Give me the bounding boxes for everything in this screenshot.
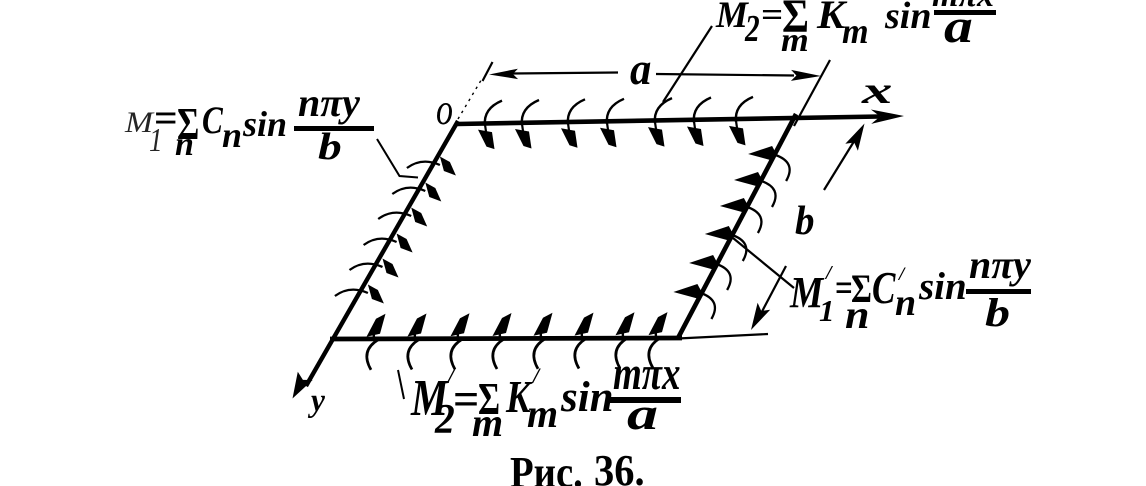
bottom edge thin extension <box>678 334 768 339</box>
dimension b line lower segment <box>757 266 786 321</box>
formula M2p: numerator m pi x <box>613 350 680 398</box>
moment hook right 6 <box>673 284 715 319</box>
formula M2p: K subscript m <box>527 394 558 434</box>
label b (dimension) <box>795 200 814 241</box>
formula M2: subscript 2 <box>745 10 760 48</box>
formula M2p: subscript 2 <box>435 399 455 441</box>
plate right edge <box>678 114 796 338</box>
moment hook top 6 <box>687 98 711 147</box>
formula M2p: sum <box>478 377 500 422</box>
plate bottom edge <box>330 338 682 339</box>
formula M2p: sum index m <box>472 403 503 443</box>
moment hook top 4 <box>600 99 624 148</box>
moment hook left 6 <box>335 285 384 304</box>
formula M1: C <box>202 101 223 140</box>
formula M2p: M <box>411 373 448 425</box>
moment hook right 4 <box>705 226 747 261</box>
formula M1: M (faint) <box>125 108 153 138</box>
caption 36. <box>594 449 645 486</box>
moment hook left 3 <box>378 208 427 227</box>
x axis arrowhead <box>871 110 904 124</box>
moment hook right 2 <box>734 172 776 207</box>
dimension b line upper segment <box>824 130 861 190</box>
moment hook top 7 <box>729 97 753 145</box>
moment hook top 2 <box>515 100 539 149</box>
formula M1p: numerator n pi y <box>969 245 1031 285</box>
formula M1p: C <box>872 266 895 311</box>
formula M2: K <box>817 0 845 35</box>
formula M1: sin <box>243 106 287 142</box>
formula M1: fraction bar <box>294 126 374 131</box>
formula M2: equals <box>761 0 783 32</box>
formula M1p: denominator b <box>985 293 1010 333</box>
y axis arrowhead <box>293 372 313 399</box>
moment hook bottom 5 <box>534 313 553 369</box>
moment hook bottom 6 <box>575 313 594 369</box>
moment hook right 1 <box>748 146 790 181</box>
formula M1: numerator n pi y <box>298 83 360 123</box>
formula M1: sum <box>177 101 199 147</box>
leader to formula M2 <box>663 26 712 102</box>
formula M1p: equals <box>835 269 853 308</box>
x axis with plate top edge <box>457 117 880 125</box>
dimension a line right segment <box>656 74 794 76</box>
formula M2: numerator m pi x <box>932 0 994 13</box>
dimension a left arrowhead <box>489 69 518 79</box>
formula M1: subscript 1 <box>149 124 163 158</box>
right edge extension above corner (dim a right tick) <box>794 60 830 126</box>
formula M1p: M <box>790 271 823 315</box>
dimension b top arrowhead <box>845 124 864 151</box>
formula M2: denominator a <box>944 3 973 51</box>
formula M2p: denominator a <box>627 391 658 437</box>
formula M2p: fraction bar <box>610 397 681 403</box>
caption Ris. <box>510 451 583 486</box>
formula M2p: K <box>506 374 531 420</box>
formula M2p: K prime <box>533 365 539 387</box>
dimension a right arrowhead <box>791 70 821 81</box>
moment hook left 4 <box>364 234 413 253</box>
formula M1p: C prime <box>899 265 904 284</box>
formula M2: K subscript m <box>842 13 869 49</box>
leader to formula M1p <box>733 238 794 288</box>
moment hook top 3 <box>561 99 585 148</box>
formula M2: fraction bar <box>934 10 996 15</box>
moment hook top 1 <box>478 101 502 150</box>
formula M2: sin <box>885 0 931 35</box>
formula M2p: sin <box>561 376 614 419</box>
moment hook right 5 <box>689 255 731 290</box>
leader from formula M1 <box>377 139 418 178</box>
moment hook bottom 8 <box>649 312 668 368</box>
label o <box>436 87 453 132</box>
moment hook bottom 7 <box>616 312 635 368</box>
moment hook bottom 1 <box>367 314 386 370</box>
moment hook left 1 <box>407 157 456 176</box>
formula M1: equals <box>154 98 178 140</box>
formula M1: C subscript n <box>222 117 242 153</box>
y axis with plate left edge <box>306 121 458 386</box>
formula M1p: C subscript n <box>895 284 916 322</box>
formula M1p: sum index n <box>845 295 869 335</box>
dimension a left tick <box>483 62 493 81</box>
moment hook left 5 <box>350 259 399 278</box>
formula M1p: sum <box>851 269 872 309</box>
moment hook bottom 3 <box>451 313 470 369</box>
formula M1p: prime <box>826 263 832 283</box>
moment hook bottom 2 <box>408 314 427 370</box>
moment hook right 3 <box>720 198 762 233</box>
formula M1p: fraction bar <box>966 289 1031 294</box>
formula M1: sum index n <box>175 128 194 162</box>
formula M2: M <box>716 0 748 34</box>
formula M1: denominator b <box>318 128 342 166</box>
leader from formula M2p <box>398 370 404 399</box>
dotted extension from origin (dim a left) <box>458 77 483 119</box>
moment hook left 2 <box>392 183 441 202</box>
formula M2p: equals <box>453 378 479 424</box>
formula M2p: prime <box>448 365 454 387</box>
label a (dimension) <box>630 47 651 92</box>
moment hook top 5 <box>648 98 672 147</box>
dimension a line left segment <box>512 73 618 74</box>
label y <box>311 385 325 418</box>
label x <box>862 72 892 110</box>
formula M2: sum index m <box>781 24 809 58</box>
formula M1p: subscript 1 <box>819 295 835 326</box>
formula M2: sum <box>782 0 809 41</box>
formula M1p: sin <box>919 267 967 306</box>
moment hook bottom 4 <box>493 313 512 369</box>
dimension b bottom arrowhead <box>751 303 770 330</box>
